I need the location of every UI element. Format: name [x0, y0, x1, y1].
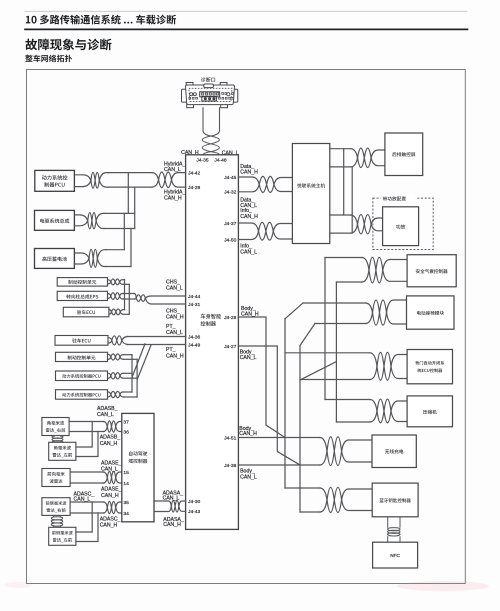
wire: ADASC_CAN_L run [70, 501, 103, 503]
label: chshen zhineng kongzhiqi [201, 314, 221, 319]
svg-text:CAN_L: CAN_L [240, 355, 257, 361]
wire: branch vertical to amplifier upper [343, 149, 345, 215]
ECU box: high-voltage battery [35, 249, 75, 269]
wire: seat branch diagonal L [300, 324, 315, 346]
wire: airbag branch vertical L (x336) [335, 282, 337, 422]
wire: seat pair upper [303, 302, 366, 304]
wire: HybridA daisy vertical H2 [130, 229, 132, 267]
label: zhenduankou (diagnostic port) [201, 77, 215, 82]
twisted pair: wireless charging link [320, 438, 327, 466]
wire: tailgate pair upper [285, 352, 370, 354]
wire: e-drive stub lower [104, 228, 135, 230]
twisted pair: ADASB at ADAS controller [104, 422, 108, 432]
ECU box: airbag controller [407, 255, 456, 287]
ECU box: powertrain controller PCU #1 (PT) [56, 371, 108, 381]
svg-text:J4-31: J4-31 [188, 302, 201, 308]
wire: PT brake stub upper [123, 354, 132, 356]
twisted pair: bluetooth key to NFC vertical link [388, 517, 400, 542]
wire: crossover diagonal airbag-L to tailgate-L [300, 362, 336, 380]
twisted pair: parking ECU to CHS bus [109, 310, 112, 315]
twisted pair: EPS to CHS bus (1) [108, 294, 111, 299]
wire: left-front front-side radar daisy to ADASC [76, 502, 98, 542]
svg-text:CAN_H: CAN_H [163, 522, 181, 528]
wire: Body trunk vertical L (x300) [299, 346, 301, 513]
svg-text:J4-44: J4-44 [188, 294, 201, 300]
wire: Body trunk vertical H (x285) [284, 319, 286, 488]
wire: PCU#2 stub upper [123, 391, 132, 393]
svg-text:CAN_H: CAN_H [100, 523, 118, 529]
wire: brake stub upper [123, 279, 125, 281]
page header rule (top faint) [25, 10, 467, 12]
twisted pair: e-drive to HybridA bus [74, 215, 87, 226]
wire: CHS daisy vertical 1 [124, 280, 126, 310]
twisted pair: HybridA at BCM [152, 173, 159, 188]
wire: airbag pair upper [325, 257, 362, 259]
svg-text:J4-36: J4-36 [188, 334, 201, 340]
svg-text:J4-30: J4-30 [188, 499, 201, 505]
svg-text:37: 37 [123, 419, 129, 425]
svg-text:J4-50: J4-50 [224, 237, 237, 243]
wire: PCU#1 stub upper [123, 372, 132, 374]
twisted pair: PCU#2 to PT bus [108, 392, 111, 397]
wire: CHS_CAN main run lower [123, 298, 134, 300]
wire: PT_CAN_H run to J4-49 [127, 344, 186, 346]
OBD connector J1 (diagnostic port symbol) [182, 83, 238, 108]
svg-text:J4-29: J4-29 [188, 185, 201, 191]
twisted pair: airbag controller link [362, 258, 369, 283]
twisted pair: PCU to HybridA bus [74, 175, 91, 187]
svg-text:J4-51: J4-51 [224, 435, 237, 441]
twisted pair: amplifier link [351, 215, 358, 233]
ECU box U3: infotainment system host [292, 144, 329, 244]
svg-text:PT_: PT_ [166, 347, 176, 353]
wire: ADASC_CAN_H run [70, 512, 103, 514]
wire: e-drive stub upper [104, 212, 135, 214]
twisted pair: parking ECU to PT bus [108, 338, 112, 343]
twisted pair: brake unit to PT bus [108, 354, 111, 359]
twisted pair: corner radars vertical link [54, 436, 61, 443]
wire: J4-51 Body_CAN_H trunk row [238, 437, 320, 439]
ECU box: steering column assembly EPS [57, 291, 107, 300]
twisted pair: tailgate ECU link [370, 353, 377, 380]
wire: brake stub lower [123, 283, 129, 285]
wire: tailgate pair lower [300, 379, 370, 381]
dashed option box: with-amplifier configuration [373, 198, 433, 249]
wire: PT daisy diagonal B [137, 345, 151, 380]
svg-text:CAN_H: CAN_H [166, 353, 184, 359]
wire: ADASB_CAN_H run [69, 431, 103, 433]
svg-text:J4-32: J4-32 [224, 190, 237, 196]
wire: PT_CAN_L run to J4-36 [127, 336, 186, 338]
wire: infotainment to rear screen upper [330, 148, 351, 150]
wire: PT daisy diagonal A [132, 344, 145, 378]
ECU box U1: body smart controller (BCM) [186, 155, 239, 530]
wire: airbag branch vertical H (x325) [324, 258, 326, 400]
svg-text:J4-49: J4-49 [188, 342, 201, 348]
twisted pair: compressor link [370, 400, 377, 423]
ECU box: front-side mmWave radar right-front [42, 498, 70, 516]
wire: compressor pair upper [325, 399, 370, 401]
wire: PCU#1 stub lower [123, 377, 137, 379]
sub heading: zhengche wangluo tuopu [25, 55, 72, 63]
wire: OBD cable down-pair [203, 108, 220, 136]
svg-text:J4-42: J4-42 [188, 170, 201, 176]
svg-text:ADASE_: ADASE_ [101, 460, 122, 466]
wire: CHS_CAN main run upper [123, 293, 134, 295]
twisted pair: front-side radars vertical link [54, 515, 61, 527]
wire: J4-27 Body_CAN_L branch [238, 346, 300, 465]
svg-text:CAN_H: CAN_H [240, 170, 258, 176]
twisted pair: brake unit to CHS bus [108, 280, 111, 284]
svg-text:J4-28: J4-28 [224, 315, 237, 321]
svg-text:CAN_H: CAN_H [239, 431, 257, 437]
svg-text:CAN_H: CAN_H [164, 195, 182, 201]
twisted pair: ADASA to BCM [154, 501, 171, 512]
twisted pair: Info_CAN BCM to infotainment [238, 223, 258, 240]
wire: PT brake stub lower [123, 358, 137, 360]
wire: twist to BCM top pins J4-35/J4-48 [203, 152, 220, 155]
wire: bluetooth key pair upper [285, 487, 320, 489]
wire: HybridA_CAN_H main run [108, 186, 152, 188]
wire: amplifier pair upper [330, 214, 351, 216]
svg-text:CAN_H: CAN_H [101, 493, 119, 499]
ECU box: brake control unit (CHS) [57, 278, 107, 287]
svg-text:CAN_L: CAN_L [240, 249, 257, 255]
wire: bluetooth key pair lower [300, 511, 320, 513]
svg-text:CHS_: CHS_ [166, 279, 180, 285]
svg-text:CAN_L: CAN_L [101, 467, 118, 473]
ECU box: front-side mmWave radar left-front [49, 527, 76, 545]
label: dai gongfang peizhi (amp config) [381, 195, 416, 202]
watermark remnant (bottom-right pink smudge) [397, 581, 489, 591]
twisted pair: PCU#1 to PT bus [108, 373, 111, 378]
wire: seat pair lower [315, 323, 366, 325]
svg-text:ADASB_: ADASB_ [97, 406, 118, 412]
ECU box: electric drive system assembly [35, 210, 75, 230]
svg-text:15: 15 [123, 470, 129, 476]
wire: infotainment to rear screen lower [330, 166, 351, 168]
wire: HybridA daisy vertical L1 [127, 173, 129, 214]
ECU box: bluetooth key controller [372, 483, 418, 517]
wire: airbag pair lower [336, 281, 362, 283]
wire: J4-28 Body_CAN_H branch [238, 317, 285, 438]
ECU box: corner mmWave radar right-front [42, 418, 69, 436]
svg-text:CAN_L: CAN_L [240, 474, 257, 480]
wire: battery stub lower [106, 266, 131, 268]
wire: PT daisy vertical 2 [136, 359, 138, 397]
ECU box: NFC [373, 542, 418, 568]
wire: PCU#2 stub lower [123, 396, 137, 398]
svg-text:CAN_L: CAN_L [74, 497, 91, 503]
twisted pair: electric seat link [366, 303, 373, 324]
wire: amplifier pair lower [330, 232, 351, 234]
svg-text:CAN_H: CAN_H [241, 311, 259, 317]
svg-text:J4-27: J4-27 [224, 344, 237, 350]
page header rule (dark) [25, 28, 468, 30]
svg-text:NFC: NFC [390, 553, 400, 558]
ECU box: electric seat module [407, 296, 455, 329]
svg-text:CAN_L: CAN_L [97, 412, 114, 418]
wire: HybridA daisy vertical H1 [134, 187, 136, 228]
wire: PT daisy vertical 1 [131, 355, 133, 392]
svg-text:PT_: PT_ [166, 324, 176, 330]
svg-text:J4-37: J4-37 [224, 221, 237, 227]
twisted pair: rear touch screen link [351, 149, 358, 167]
svg-text:ADASE_: ADASE_ [101, 487, 122, 493]
ECU box: amplifier (gongfang) [383, 207, 419, 246]
wire: seat branch diagonal H [285, 303, 303, 319]
svg-text:CAN_L: CAN_L [166, 330, 183, 336]
svg-text:J4-35: J4-35 [196, 157, 209, 163]
wire: ADASB_CAN_L run [69, 421, 103, 423]
wire: J4-38 Body_CAN_L trunk row [238, 464, 320, 466]
ECU box: rear touch screen [385, 133, 423, 176]
svg-text:CAN_L: CAN_L [163, 496, 180, 502]
wire: battery stub upper [106, 249, 124, 251]
twisted pair: ADASC at ADAS controller [104, 502, 108, 513]
ECU box: parking ECU (CHS) [63, 307, 109, 317]
wire: parking stub lower [123, 313, 129, 315]
svg-text:CAN_L: CAN_L [164, 167, 181, 173]
svg-text:14: 14 [123, 481, 129, 487]
wire: HybridA daisy vertical L2 [123, 213, 125, 249]
wire: CHS daisy vertical 2 [128, 284, 130, 314]
ECU box: powertrain controller PCU #2 (PT) [56, 390, 108, 400]
wire: parking stub upper [123, 309, 125, 311]
twisted pair symbol: OBD cable twist [202, 136, 219, 152]
svg-text:J4-38: J4-38 [224, 463, 237, 469]
ECU box: tailgate auto open/close system ECU [407, 350, 452, 384]
wire: branch vertical to amplifier lower [351, 167, 353, 233]
ECU box: forward mmWave radar [42, 469, 70, 487]
twisted pair: bluetooth key link [320, 488, 327, 512]
svg-text:36: 36 [123, 429, 129, 435]
wire: ADASE_CAN_L run [70, 471, 103, 473]
ECU box: parking ECU (PT) [55, 336, 108, 346]
svg-text:J4-48: J4-48 [214, 157, 227, 163]
ECU box: wireless charging [372, 435, 416, 468]
svg-text:CAN_H: CAN_H [240, 214, 258, 220]
svg-text:J4-45: J4-45 [224, 175, 237, 181]
svg-text:CAN_H: CAN_H [100, 441, 118, 447]
svg-text:34: 34 [123, 511, 129, 517]
diagram outer frame [27, 70, 466, 584]
svg-text:35: 35 [123, 500, 129, 506]
twisted pair: CHS at BCM [134, 294, 136, 300]
wire: ADASE_CAN_H run [70, 482, 103, 484]
ECU box: brake control unit (PT) [56, 352, 108, 361]
svg-text:ADASB_: ADASB_ [100, 435, 121, 441]
ECU box: compressor [407, 396, 452, 427]
ECU box U2: autonomous driving domain controller [122, 413, 154, 521]
svg-text:CAN_H: CAN_H [166, 315, 184, 321]
wire: HybridA_CAN_L main run [108, 172, 152, 174]
wire: compressor pair lower [336, 421, 370, 423]
svg-text:J4-43: J4-43 [188, 509, 201, 515]
svg-text:CAN_L: CAN_L [166, 286, 183, 292]
twisted pair: ADASE at ADAS controller [104, 472, 108, 483]
section heading: guzhang xianxiang yu zhenduan [25, 39, 111, 51]
page header title: 10 duolu chuanshu tongxin xitong ... chezai zhenduan [26, 15, 176, 25]
wire: left-front corner radar daisy to ADASB [76, 422, 98, 457]
ECU box: corner mmWave radar left-front [49, 442, 76, 460]
twisted pair: Data_CAN BCM to infotainment [238, 177, 259, 192]
ECU box: powertrain controller PCU (top-left) [35, 170, 75, 191]
twisted pair: HV battery to HybridA bus [74, 253, 89, 264]
